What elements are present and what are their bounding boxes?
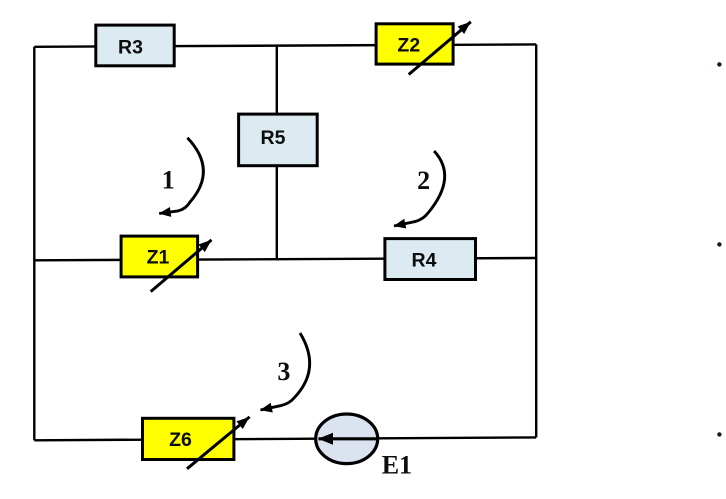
loop arrow 1	[159, 138, 203, 214]
svg-text:2: 2	[417, 166, 430, 195]
dot marker middle right	[717, 242, 721, 246]
svg-text:R4: R4	[412, 250, 437, 272]
wire middle vertical	[276, 45, 278, 260]
svg-text:3: 3	[277, 357, 290, 386]
loop arrow 3	[261, 333, 310, 410]
resistor R4	[385, 239, 476, 280]
svg-text:E1: E1	[382, 451, 412, 480]
impedance Z2	[376, 22, 471, 75]
wire middle horizontal	[34, 258, 536, 260]
source E1	[316, 414, 412, 480]
svg-text:R3: R3	[118, 37, 143, 59]
impedance Z6	[143, 417, 250, 469]
wire left	[33, 47, 35, 441]
wire right	[535, 44, 537, 437]
dot marker bottom right	[717, 432, 721, 436]
svg-text:Z6: Z6	[169, 429, 192, 451]
impedance Z1	[121, 236, 211, 292]
wire bottom	[34, 437, 536, 440]
wire top	[34, 44, 536, 46]
loop arrow 2	[394, 151, 445, 226]
dot marker top right	[717, 62, 721, 66]
svg-text:Z1: Z1	[147, 247, 170, 269]
svg-text:R5: R5	[261, 127, 286, 149]
resistor R5	[239, 114, 318, 166]
svg-text:Z2: Z2	[397, 35, 420, 57]
svg-text:1: 1	[162, 166, 175, 195]
resistor R3	[96, 25, 174, 66]
